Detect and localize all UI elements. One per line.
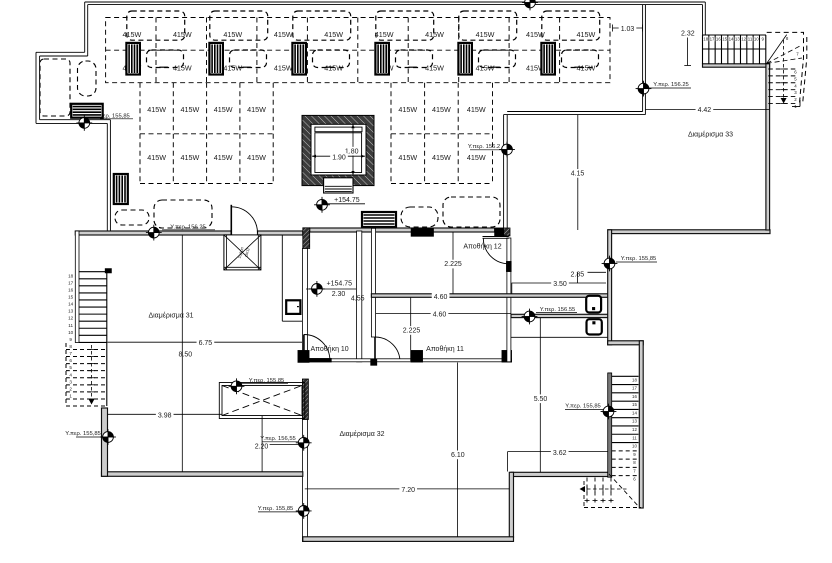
benchmark 155.85 right of ap33 — [616, 256, 657, 262]
svg-text:415W: 415W — [476, 30, 495, 39]
svg-text:415W: 415W — [147, 153, 166, 162]
solar panel array band (dashed grid) — [106, 18, 610, 83]
winder radial lines — [767, 35, 802, 64]
svg-text:415W: 415W — [214, 105, 233, 114]
benchmark 155.85 bottom left — [65, 431, 105, 437]
svg-text:415W: 415W — [467, 105, 486, 114]
solar panels row 1 (tilted panel outlines) — [127, 11, 600, 40]
svg-text:Διαμέρισμα 31: Διαμέρισμα 31 — [148, 312, 193, 320]
svg-text:10: 10 — [632, 444, 637, 449]
svg-text:8: 8 — [69, 344, 72, 349]
svg-text:4.42: 4.42 — [698, 107, 712, 114]
svg-text:3.50: 3.50 — [553, 281, 567, 288]
level +154.75 / 2.30 / 4.55 — [306, 281, 365, 303]
svg-text:14: 14 — [632, 410, 637, 415]
svg-text:415W: 415W — [375, 30, 394, 39]
svg-text:4.60: 4.60 — [433, 312, 447, 319]
inverter units on roof — [126, 43, 555, 75]
benchmark 156.2 right grid — [468, 144, 502, 150]
benchmark on roof top edge — [522, 0, 538, 10]
storage 10 door leaf — [303, 335, 305, 361]
elevator vent grill below — [324, 178, 353, 193]
wall below top-right stair — [703, 64, 770, 67]
mid PV grid right block — [391, 83, 493, 184]
svg-text:4.15: 4.15 — [571, 171, 585, 178]
AC unit on left wall — [114, 174, 128, 204]
svg-text:4.60: 4.60 — [434, 294, 448, 301]
svg-text:15: 15 — [68, 295, 74, 300]
svg-text:2.32: 2.32 — [681, 31, 695, 38]
svg-text:415W: 415W — [432, 153, 451, 162]
svg-text:16: 16 — [632, 394, 637, 399]
svg-text:415W: 415W — [181, 153, 200, 162]
svg-text:2.225: 2.225 — [444, 261, 462, 268]
dimension 3.50 — [512, 280, 607, 289]
dimension 1.03 — [613, 25, 643, 34]
svg-text:1: 1 — [69, 393, 72, 398]
skylight box with X — [219, 383, 304, 419]
roof drain 2 — [587, 319, 602, 334]
svg-text:415W: 415W — [467, 153, 486, 162]
svg-text:Αποθήκη 12: Αποθήκη 12 — [463, 244, 501, 251]
grate shaft (Σχάρα ΟΚΩ) — [224, 235, 261, 270]
svg-text:11: 11 — [748, 36, 753, 41]
wall south of storage 12 — [371, 294, 608, 298]
AC unit mid terrace — [362, 212, 396, 227]
dimension 8.50 — [176, 350, 194, 359]
dimension 6.75 — [108, 339, 303, 348]
dimension 4.42 — [645, 106, 769, 115]
lower flight dashed south-east — [580, 474, 642, 508]
svg-text:16: 16 — [716, 36, 721, 41]
svg-text:5: 5 — [69, 365, 72, 370]
svg-text:415W: 415W — [247, 105, 266, 114]
svg-text:4.55: 4.55 — [351, 296, 365, 303]
svg-text:12: 12 — [68, 316, 74, 321]
svg-text:2.30: 2.30 — [332, 291, 346, 298]
svg-text:18: 18 — [632, 377, 637, 382]
svg-text:415W: 415W — [173, 30, 192, 39]
svg-text:415W: 415W — [274, 30, 293, 39]
svg-text:1.90: 1.90 — [332, 155, 346, 162]
svg-text:7.20: 7.20 — [401, 487, 415, 494]
benchmark 155.85 above skylight — [240, 378, 288, 384]
svg-text:415W: 415W — [247, 153, 266, 162]
svg-text:10: 10 — [68, 330, 74, 335]
benchmark 156.55 left wall ap32 — [260, 436, 299, 442]
svg-text:7: 7 — [69, 351, 72, 356]
dimension 3.62 — [508, 448, 608, 471]
left building wall — [75, 231, 79, 343]
svg-text:Αποθήκη 10: Αποθήκη 10 — [310, 346, 348, 353]
dimension 2.20 — [255, 443, 303, 450]
svg-text:14: 14 — [68, 302, 74, 307]
svg-text:415W: 415W — [324, 63, 343, 72]
svg-text:Υ.περ. 155,85: Υ.περ. 155,85 — [65, 431, 101, 437]
svg-text:Διαμέρισμα 33: Διαμέρισμα 33 — [688, 131, 733, 139]
svg-text:15: 15 — [722, 36, 727, 41]
ledge wall right strip — [511, 314, 608, 317]
svg-text:415W: 415W — [576, 63, 595, 72]
long chain line x182 — [181, 235, 183, 472]
dimension 4.60 lower — [376, 310, 512, 319]
benchmark 156.55 mid right — [536, 307, 577, 313]
svg-text:14: 14 — [729, 36, 734, 41]
left terrace parapet — [36, 52, 110, 232]
svg-text:Υ.περ. 155,85: Υ.περ. 155,85 — [565, 404, 601, 410]
415W labels row 1 — [123, 30, 596, 39]
svg-text:415W: 415W — [432, 105, 451, 114]
storage 12 door — [483, 237, 509, 264]
svg-text:415W: 415W — [425, 30, 444, 39]
chain line x262 — [261, 416, 263, 472]
svg-text:13: 13 — [68, 309, 74, 314]
svg-text:2.225: 2.225 — [403, 328, 421, 335]
dimension 2.225 storage 12 — [442, 232, 464, 294]
svg-text:8.50: 8.50 — [178, 352, 192, 359]
svg-text:17: 17 — [68, 280, 74, 285]
svg-text:+154.75: +154.75 — [334, 197, 360, 204]
svg-text:415W: 415W — [173, 63, 192, 72]
benchmark 156.25 at terrace mid — [162, 225, 215, 231]
svg-text:415W: 415W — [476, 63, 495, 72]
svg-text:415W: 415W — [398, 153, 417, 162]
svg-text:4: 4 — [69, 372, 72, 377]
apartment 31 right wall — [302, 249, 307, 362]
svg-text:Υ.περ. 155,85: Υ.περ. 155,85 — [621, 256, 657, 262]
staircase north-east (steps 9-18 + winder) — [703, 35, 767, 64]
dimension 6.10 — [449, 363, 467, 537]
svg-text:13: 13 — [735, 36, 740, 41]
svg-text:Υ.περ. 156.55: Υ.περ. 156.55 — [540, 307, 576, 313]
dimension 4.60 on wall — [432, 292, 450, 301]
dimension 4.15 — [569, 115, 587, 230]
staircase west (steps 1-18) — [66, 269, 111, 406]
dimension 5.50 — [532, 318, 550, 472]
duct fixture apartment 31 — [282, 235, 302, 321]
elevator shaft — [302, 115, 374, 185]
svg-text:9: 9 — [69, 337, 72, 342]
roof drain 1 — [586, 296, 601, 313]
svg-text:415W: 415W — [223, 30, 242, 39]
small dashes in row2 — [159, 66, 583, 68]
dimension 2.225 storage 11 — [401, 298, 423, 362]
dimension 2.85 — [570, 272, 606, 283]
svg-text:10: 10 — [754, 36, 759, 41]
south walls apartment 32 — [511, 472, 611, 476]
storage south wall — [304, 359, 512, 362]
benchmark 155.85 lower ap32 — [258, 506, 298, 512]
svg-text:6: 6 — [69, 358, 72, 363]
building outer boundary — [85, 2, 706, 56]
dimension 7.20 — [305, 486, 510, 495]
svg-text:415W: 415W — [425, 63, 444, 72]
benchmark 155.85 at SE stair — [565, 404, 606, 410]
storage 11 door leaf — [374, 337, 376, 362]
main north wall of apartments — [75, 231, 231, 235]
solar panels row 2 (small outlines) — [147, 50, 599, 68]
svg-text:12: 12 — [632, 427, 637, 432]
right roof corner walls — [643, 2, 706, 115]
level +154.75 top — [327, 197, 365, 204]
dimension 3.98 — [108, 411, 223, 420]
svg-text:15: 15 — [632, 402, 637, 407]
AC unit top-left — [71, 104, 103, 118]
svg-text:Διαμέρισμα 32: Διαμέρισμα 32 — [339, 430, 384, 438]
svg-text:11: 11 — [632, 435, 637, 440]
svg-text:Αποθήκη 11: Αποθήκη 11 — [426, 346, 464, 353]
mid PV grid left block — [140, 83, 273, 184]
svg-text:16: 16 — [68, 287, 74, 292]
svg-text:415W: 415W — [223, 63, 242, 72]
svg-text:3.98: 3.98 — [158, 413, 172, 420]
svg-text:415W: 415W — [398, 105, 417, 114]
svg-text:Υ.περ. 155,85: Υ.περ. 155,85 — [258, 506, 294, 512]
storage 12 east wall — [507, 238, 511, 362]
svg-text:6.10: 6.10 — [451, 452, 465, 459]
svg-text:2.20: 2.20 — [255, 443, 269, 450]
dimension 2.32 — [681, 31, 695, 66]
svg-text:415W: 415W — [324, 30, 343, 39]
svg-text:415W: 415W — [274, 63, 293, 72]
svg-text:2: 2 — [69, 386, 72, 391]
apartment 33 area walls — [608, 230, 770, 234]
benchmark 156.25 top right — [648, 82, 691, 88]
svg-text:+154.75: +154.75 — [327, 281, 353, 288]
svg-text:Υ.περ. 156.2: Υ.περ. 156.2 — [468, 144, 500, 150]
svg-text:1.03: 1.03 — [621, 26, 635, 33]
svg-text:17: 17 — [710, 36, 715, 41]
svg-text:Υ.περ. 156.25: Υ.περ. 156.25 — [653, 82, 689, 88]
svg-text:3: 3 — [69, 379, 72, 384]
svg-text:12: 12 — [741, 36, 746, 41]
svg-text:18: 18 — [68, 273, 74, 278]
svg-text:415W: 415W — [181, 105, 200, 114]
svg-text:3.62: 3.62 — [553, 450, 567, 457]
svg-text:6.75: 6.75 — [199, 340, 213, 347]
svg-text:Υ.περ. 156,55: Υ.περ. 156,55 — [260, 436, 296, 442]
apartment 33 terrace parapet — [504, 112, 646, 231]
benchmark marker terrace left — [76, 115, 92, 131]
svg-text:17: 17 — [632, 386, 637, 391]
svg-text:13: 13 — [632, 419, 637, 424]
svg-text:415W: 415W — [123, 30, 142, 39]
svg-text:415W: 415W — [576, 30, 595, 39]
wall section fills — [303, 228, 310, 249]
lower flight steps (dashed, 1-6) — [768, 40, 800, 109]
duct walls between storage 10 and 11 — [357, 231, 362, 362]
svg-text:415W: 415W — [526, 30, 545, 39]
svg-text:11: 11 — [68, 323, 73, 328]
door apartment 31 to terrace — [231, 205, 257, 235]
upper flight dashed outline — [767, 32, 807, 104]
svg-text:5.50: 5.50 — [534, 396, 548, 403]
svg-text:415W: 415W — [147, 105, 166, 114]
staircase south-east (steps 6-18) — [608, 373, 639, 482]
svg-text:18: 18 — [703, 36, 708, 41]
415W labels row 2 — [123, 63, 596, 72]
svg-text:415W: 415W — [214, 153, 233, 162]
terrace dashed unit outlines top-left — [40, 59, 500, 228]
